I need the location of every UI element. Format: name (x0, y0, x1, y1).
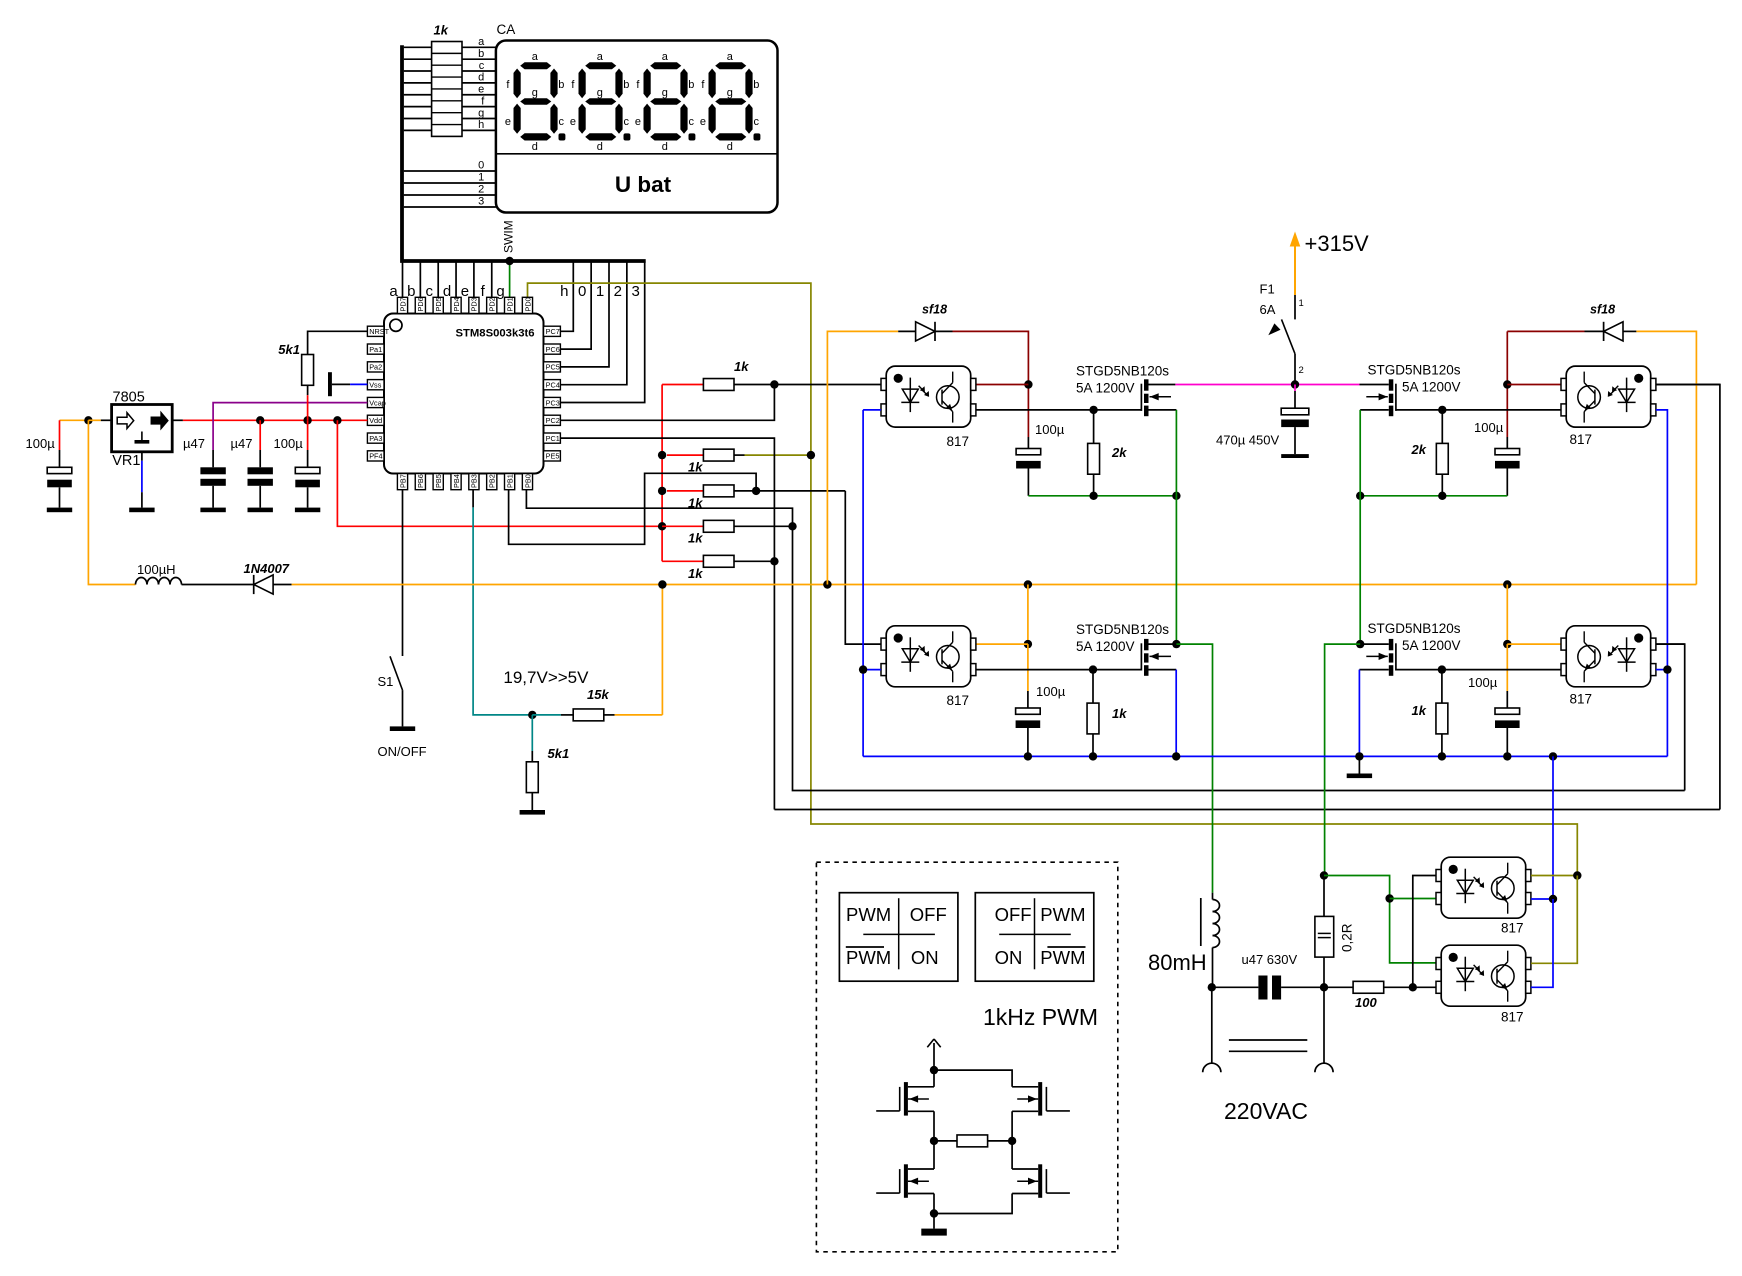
VR1 input arrow (hollow) (117, 413, 134, 429)
D3 anode lead (1623, 330, 1636, 332)
wire NRST to R1 (308, 331, 368, 355)
wire red vertical feeding 1k bank (661, 385, 663, 527)
mini mosfet M3 (lower-left) (876, 1164, 929, 1198)
wire bus 1 to PC5 (560, 261, 609, 367)
C7 negative terminal bar (1281, 454, 1309, 458)
ground C3 (248, 508, 273, 513)
Q3 emitter lead (1149, 669, 1177, 671)
wire bus to PD2 (491, 261, 493, 297)
U1 left pin PA3 (367, 433, 384, 443)
wire green to U6-lower cathode (1390, 898, 1436, 900)
wire orange battery rail (292, 584, 1697, 586)
wire blue U2 cathode (863, 409, 881, 411)
C6 bottom lead (1506, 469, 1508, 496)
optocoupler U6 817 (output sense upper) (1436, 857, 1531, 918)
diode D1 1N4007 (254, 575, 273, 594)
junction green/shunt (1320, 871, 1328, 879)
VR1 ground pin wire (141, 452, 143, 461)
RN1 divider 5 (432, 100, 462, 102)
svg-text:c: c (624, 116, 630, 128)
svg-text:5A 1200V: 5A 1200V (1076, 639, 1135, 654)
svg-text:Vcap: Vcap (369, 398, 386, 407)
svg-text:Vdd: Vdd (369, 416, 382, 425)
svg-text:PC5: PC5 (546, 363, 560, 372)
wire orange branch lower-left (1027, 585, 1029, 645)
C9 bottom lead (1506, 728, 1508, 756)
junction rail/lower-right supply (1503, 580, 1511, 588)
svg-text:g: g (662, 87, 668, 99)
junction blue rail/C8 (1024, 752, 1032, 760)
mini bridge top rail (934, 1070, 1012, 1087)
U1 bottom pin PB4 (451, 474, 461, 490)
R1 bottom lead (307, 385, 309, 395)
wire blue U6 emitter (1531, 898, 1553, 900)
C2 bottom lead (212, 486, 214, 508)
svg-text:a: a (662, 51, 669, 63)
svg-text:1k: 1k (434, 23, 449, 38)
junction mini bottom (930, 1209, 938, 1217)
wire U4 emitter to Q3 gate (976, 669, 1142, 671)
RN1 right lead 2 to display pin b (462, 58, 496, 60)
junction R1k-1/PC2 (770, 380, 778, 388)
overline table1 (846, 946, 884, 948)
7-segment display module LCD box (496, 41, 778, 213)
wire up to U8 anode (1656, 644, 1685, 790)
svg-text:PD5: PD5 (434, 297, 443, 311)
svg-text:STGD5NB120s: STGD5NB120s (1076, 364, 1169, 379)
wire maroon to U2 collector (976, 384, 1029, 386)
L2 bottom lead (1212, 948, 1214, 988)
svg-text:817: 817 (1501, 1010, 1524, 1025)
wire to U7-lower cathode (1413, 986, 1436, 988)
svg-text:a: a (727, 51, 734, 63)
display digit 4 (709, 62, 761, 140)
Vss wire blue part (350, 383, 367, 385)
inductor L1 100uH (136, 578, 182, 585)
capacitor C1 100u (47, 467, 72, 487)
mini mosfet M1 (upper-left) (876, 1082, 929, 1116)
svg-text:100µH: 100µH (137, 562, 176, 577)
wire red down to C1 (59, 420, 61, 450)
junction maroon/U2 collector (1024, 380, 1032, 388)
U1 bottom pin PB6 (415, 474, 425, 490)
junction output left (1208, 983, 1216, 991)
wire purple Vcap to C2 (213, 403, 367, 450)
wire PB0 jog (526, 490, 644, 509)
svg-text:PB5: PB5 (434, 474, 443, 488)
svg-text:STGD5NB120s: STGD5NB120s (1367, 363, 1460, 378)
wire maroon bootstrap right (1506, 331, 1508, 437)
svg-text:PWM: PWM (1040, 947, 1085, 968)
svg-text:817: 817 (1570, 432, 1593, 447)
R1k-1 right lead (734, 384, 774, 386)
C3 bottom lead (259, 486, 261, 508)
junction olive/R1k-2 (807, 451, 815, 459)
svg-text:PD0: PD0 (523, 297, 532, 311)
M3 drain stub (908, 1168, 934, 1170)
svg-text:h: h (478, 119, 484, 131)
wire bus to PD6 (419, 261, 421, 297)
Vss wire black part (332, 383, 350, 385)
svg-text:b: b (478, 48, 484, 60)
wire PB7 to switch S1 (402, 490, 404, 656)
U1 top pin PD0 (522, 297, 532, 313)
Q4 emitter lead (1359, 669, 1388, 671)
Q1 collector lead (1149, 384, 1176, 386)
junction orange/U5 collector (1503, 640, 1511, 648)
resistor R0.2 0,2R shunt (1323, 876, 1325, 917)
optocoupler U2 817 (upper-left) (881, 366, 976, 427)
svg-text:1: 1 (478, 172, 484, 184)
mini bridge bottom rail (934, 1194, 1012, 1214)
R1k-4 left lead (red) (662, 525, 703, 527)
transistor Q4 STGD5NB120s (lower-right, mirrored) (1366, 639, 1396, 676)
VR1 input lead (101, 419, 112, 421)
junction blue rail/Q3 emitter (1172, 752, 1180, 760)
svg-text:PC3: PC3 (546, 398, 560, 407)
U1 left pin PF4 (367, 451, 384, 461)
R0.2 bottom lead (1323, 957, 1325, 987)
svg-text:g: g (478, 107, 484, 119)
wire bus to PD7 (402, 261, 404, 297)
junction blue/U5 cathode (1663, 665, 1671, 673)
R1k-2 to olive net (745, 454, 811, 456)
U1 top pin PD1 (505, 297, 515, 313)
C4 top lead (307, 450, 309, 467)
U1 bottom pin PB5 (433, 474, 443, 490)
dashed info box (816, 862, 1117, 1252)
svg-text:0: 0 (578, 283, 586, 300)
junction red R1k-4 (658, 522, 666, 530)
svg-text:VR1: VR1 (112, 453, 140, 469)
capacitor C8 100u (lower-left) (1027, 691, 1029, 708)
junction mini top (930, 1066, 938, 1074)
R100 right lead (1384, 986, 1413, 988)
VR1 internal ground symbol (141, 432, 143, 441)
inductor L2 80mH (1212, 893, 1214, 900)
svg-text:OFF: OFF (995, 904, 1032, 925)
D1 anode lead (273, 584, 292, 586)
svg-text:1k: 1k (688, 566, 703, 581)
wire PB0 to R1k-4 junction (645, 508, 793, 526)
resistor R100 100 (1324, 986, 1353, 988)
svg-text:b: b (407, 283, 415, 300)
junction rail/sf18-left (823, 580, 831, 588)
wire bus to PD4 (455, 261, 457, 297)
svg-text:d: d (478, 72, 484, 84)
C1 bottom lead (59, 487, 61, 507)
svg-text:1k: 1k (734, 359, 749, 374)
junction divider (528, 711, 536, 719)
svg-text:6A: 6A (1260, 302, 1276, 317)
U1 top pin PD7 (397, 297, 407, 313)
U1 right pin PC7 (544, 326, 561, 336)
wire bus to PD5 (437, 261, 439, 297)
svg-text:NRST: NRST (369, 327, 389, 336)
wire red branch to 1k resistor bank (337, 420, 662, 526)
voltage regulator VR1 7805 box (112, 405, 173, 452)
svg-text:PB4: PB4 (452, 474, 461, 488)
U1 bottom pin PB7 (397, 474, 407, 490)
resistor R1k-3 1k (703, 485, 734, 497)
capacitor C4 100u (295, 467, 320, 487)
wire green Q1 emitter down (1175, 410, 1177, 644)
svg-text:ON: ON (911, 947, 939, 968)
RN1 left lead 4 to bus (404, 82, 432, 84)
svg-text:1N4007: 1N4007 (244, 561, 290, 576)
wire teal down to R5k1b (531, 715, 533, 751)
wire maroon bootstrap left (953, 331, 1029, 437)
M1 drain stub (908, 1086, 934, 1088)
wire orange to VR1 (88, 419, 100, 421)
VR1 output lead (172, 419, 183, 421)
svg-text:PA3: PA3 (369, 434, 382, 443)
resistor R1k-g1 1k (lower-left gate) (1092, 670, 1094, 704)
RN1 divider 4 (432, 88, 462, 90)
wire blue Q3 emitter down (1175, 670, 1177, 757)
svg-text:PC4: PC4 (546, 381, 560, 390)
junction R1k-5/PC1 (770, 557, 778, 565)
svg-text:c: c (425, 283, 433, 300)
display digit 1 (514, 62, 566, 140)
wire bus 2 to PC4 (560, 261, 626, 385)
svg-text:d: d (597, 141, 603, 153)
U1 right pin PC2 (544, 415, 561, 425)
svg-text:PE5: PE5 (546, 452, 560, 461)
RN1 left lead 5 to bus (404, 94, 432, 96)
RN1 right lead 4 to display pin d (462, 82, 496, 84)
ground symbol power stage (1358, 756, 1360, 773)
svg-text:1k: 1k (1412, 703, 1427, 718)
svg-text:1kHz PWM: 1kHz PWM (983, 1004, 1098, 1030)
resistor R1k-5 1k (703, 555, 734, 567)
wire U5 anode right (1656, 643, 1685, 645)
svg-text:PB3: PB3 (470, 474, 479, 488)
wire green emitter bus upper-right (1360, 495, 1507, 497)
digit select wire 3 (404, 206, 496, 208)
wire R1k-1 to optocoupler U2 anode (774, 384, 881, 386)
wire olive to U7 collector (1531, 876, 1577, 964)
svg-text:a: a (478, 36, 485, 48)
wire PC1 through R1k-5 to U6 route (560, 438, 774, 809)
wire up to U6 anode (1656, 385, 1720, 810)
M4 source stub (1012, 1193, 1038, 1195)
RN1 left lead 1 to bus (404, 46, 432, 48)
svg-text:CA: CA (497, 22, 516, 37)
R2k-2 bottom lead (1441, 474, 1443, 496)
RN1 right lead 7 to display pin g (462, 117, 496, 119)
optocoupler U7 817 (output sense lower) (1436, 945, 1531, 1006)
wire blue U4 cathode (863, 669, 881, 671)
U1 top pin PD5 (433, 297, 443, 313)
RN1 left lead 3 to bus (404, 70, 432, 72)
junction rail/lower-left supply (1024, 580, 1032, 588)
ground C4 (295, 508, 320, 513)
svg-text:sf18: sf18 (1590, 303, 1615, 317)
svg-text:PD3: PD3 (470, 297, 479, 311)
U1 right pin PE5 (544, 451, 561, 461)
wire orange up to battery rail (661, 585, 663, 715)
svg-text:5A 1200V: 5A 1200V (1402, 380, 1461, 395)
junction rail/R15k (658, 580, 666, 588)
svg-text:a: a (597, 51, 604, 63)
svg-text:g: g (597, 87, 603, 99)
U1 left pin Pa2 (367, 362, 384, 372)
C7 bottom lead (1294, 427, 1296, 454)
svg-text:d: d (727, 141, 733, 153)
svg-text:d: d (532, 141, 538, 153)
VR1 output arrow (filled) (151, 413, 168, 429)
power arrow +315V (1294, 246, 1296, 295)
optocoupler U4 817 (lower-left) (881, 626, 976, 687)
RN1 right lead 6 to display pin f (462, 106, 496, 108)
svg-text:817: 817 (947, 434, 970, 449)
display wire bus (thick) (402, 45, 646, 261)
junction VR1 input (84, 416, 92, 424)
mini right wire (1011, 1141, 1013, 1169)
junction maroon/U3 collector (1503, 380, 1511, 388)
U1 bottom pin PB1 (505, 474, 515, 490)
U1 bottom pin PB2 (487, 474, 497, 490)
R1k-1 left lead (red) (662, 384, 703, 386)
svg-text:PC1: PC1 (546, 434, 560, 443)
junction R2k-2 top (1438, 406, 1446, 414)
R1k-5 left lead (red) (662, 560, 703, 562)
svg-text:5A 1200V: 5A 1200V (1076, 381, 1135, 396)
svg-text:80mH: 80mH (1148, 950, 1207, 975)
svg-text:PB7: PB7 (398, 474, 407, 488)
capacitor C5 100u (upper-left bootstrap) (1027, 437, 1029, 449)
junction red branch (333, 416, 341, 424)
svg-text:SWIM: SWIM (502, 220, 516, 253)
RN1 right lead 5 to display pin e (462, 94, 496, 96)
svg-text:b: b (558, 79, 564, 91)
wire L1 to D1 (182, 584, 254, 586)
svg-text:1k: 1k (688, 460, 703, 475)
R15k right lead (604, 714, 614, 716)
svg-text:817: 817 (1501, 921, 1524, 936)
D2 anode lead (898, 330, 915, 332)
wire blue U3 cathode down (1656, 410, 1668, 757)
svg-text:19,7V>>5V: 19,7V>>5V (503, 668, 589, 687)
svg-text:e: e (570, 116, 576, 128)
svg-text:PF4: PF4 (369, 452, 382, 461)
junction R2/C4 top (303, 416, 311, 424)
svg-text:PD2: PD2 (488, 297, 497, 311)
R1k-3 left lead (red) (667, 490, 703, 492)
svg-text:ON/OFF: ON/OFF (378, 744, 427, 759)
svg-text:PB2: PB2 (488, 474, 497, 488)
junction R100/U7 anode (1409, 983, 1417, 991)
fuse/breaker F1 (1294, 295, 1296, 319)
R1k-2 right lead (734, 454, 745, 456)
wire orange sf18-right to rail (1636, 331, 1696, 584)
display divider line (496, 153, 778, 155)
RN1 divider 1 (432, 52, 462, 54)
junction blue rail/ground (1355, 752, 1363, 760)
U1 top pin PD4 (451, 297, 461, 313)
C4 red lead (307, 420, 309, 450)
wire Q4 gate to U5 emitter (1396, 669, 1561, 671)
svg-text:PD7: PD7 (398, 297, 407, 311)
svg-text:2: 2 (478, 184, 484, 196)
svg-text:STGD5NB120s: STGD5NB120s (1367, 621, 1460, 636)
svg-text:S1: S1 (378, 674, 394, 689)
ground R5k1b (520, 810, 545, 815)
svg-text:PWM: PWM (1040, 904, 1085, 925)
svg-text:1k: 1k (1112, 706, 1127, 721)
RN1 left lead 8 to bus (404, 129, 432, 131)
svg-text:0,2R: 0,2R (1340, 923, 1355, 952)
R1k-2 left lead (red) (667, 454, 703, 456)
svg-text:817: 817 (947, 693, 970, 708)
junction bridge output left (1172, 640, 1180, 648)
PWM state table 1 (839, 893, 958, 982)
svg-text:100µ: 100µ (1468, 675, 1498, 690)
U1 left pin Vdd (367, 415, 384, 425)
microcontroller U1 STM8S003k3t6 body (384, 314, 544, 474)
junction mini mid right (1008, 1137, 1016, 1145)
svg-text:sf18: sf18 (922, 303, 947, 317)
svg-text:Pa1: Pa1 (369, 345, 382, 354)
transistor Q3 STGD5NB120s (lower-left) (1141, 639, 1171, 676)
overline table2 (1047, 946, 1085, 948)
capacitor C3 u47 (248, 467, 273, 486)
svg-text:PC6: PC6 (546, 345, 560, 354)
RN1 right lead 3 to display pin c (462, 70, 496, 72)
svg-text:Vss: Vss (369, 381, 382, 390)
ground symbol at Vss (rotated bar) (328, 372, 332, 396)
wire magenta +315V bus (1175, 384, 1359, 386)
wire down to optocoupler U4 anode (845, 491, 881, 644)
svg-text:5k1: 5k1 (278, 342, 300, 357)
svg-text:g: g (532, 87, 538, 99)
svg-text:e: e (461, 283, 469, 300)
junction R1k-3/PB1 (752, 487, 760, 495)
svg-text:2k: 2k (1411, 442, 1427, 457)
resistor network RN1 1k (8x) body (432, 42, 462, 137)
U1 bottom pin PB3 (469, 474, 479, 490)
M2 source stub (1012, 1110, 1038, 1112)
R5k1b top lead (531, 751, 533, 762)
RN1 left lead 7 to bus (404, 117, 432, 119)
svg-text:c: c (689, 116, 695, 128)
svg-text:OFF: OFF (910, 904, 947, 925)
R5k1b bottom lead (531, 793, 533, 810)
U1 top pin PD3 (469, 297, 479, 313)
wire green Q2 emitter down (1359, 410, 1361, 644)
resistor R15k 15k (573, 709, 604, 721)
svg-text:PB1: PB1 (505, 474, 514, 488)
svg-text:PD6: PD6 (416, 297, 425, 311)
resistor R1k-4 1k (703, 520, 734, 532)
R1k-5 right lead (734, 560, 774, 562)
M3 source stub (908, 1193, 934, 1195)
ground S1 (390, 726, 415, 731)
svg-text:+315V: +315V (1305, 231, 1370, 256)
PB3 lead (472, 490, 474, 508)
wire orange to C8 (1027, 644, 1029, 691)
mini bridge ground (933, 1214, 935, 1229)
svg-text:STGD5NB120s: STGD5NB120s (1076, 622, 1169, 637)
svg-text:PWM: PWM (846, 947, 891, 968)
mini right mid wire (1011, 1111, 1013, 1141)
C1 top lead (59, 450, 61, 467)
svg-text:PC2: PC2 (546, 416, 560, 425)
optocoupler U3 817 (upper-right, mirrored) (1561, 366, 1656, 427)
ground C1 (47, 508, 72, 513)
resistor R2k-1 2k (1093, 410, 1095, 444)
